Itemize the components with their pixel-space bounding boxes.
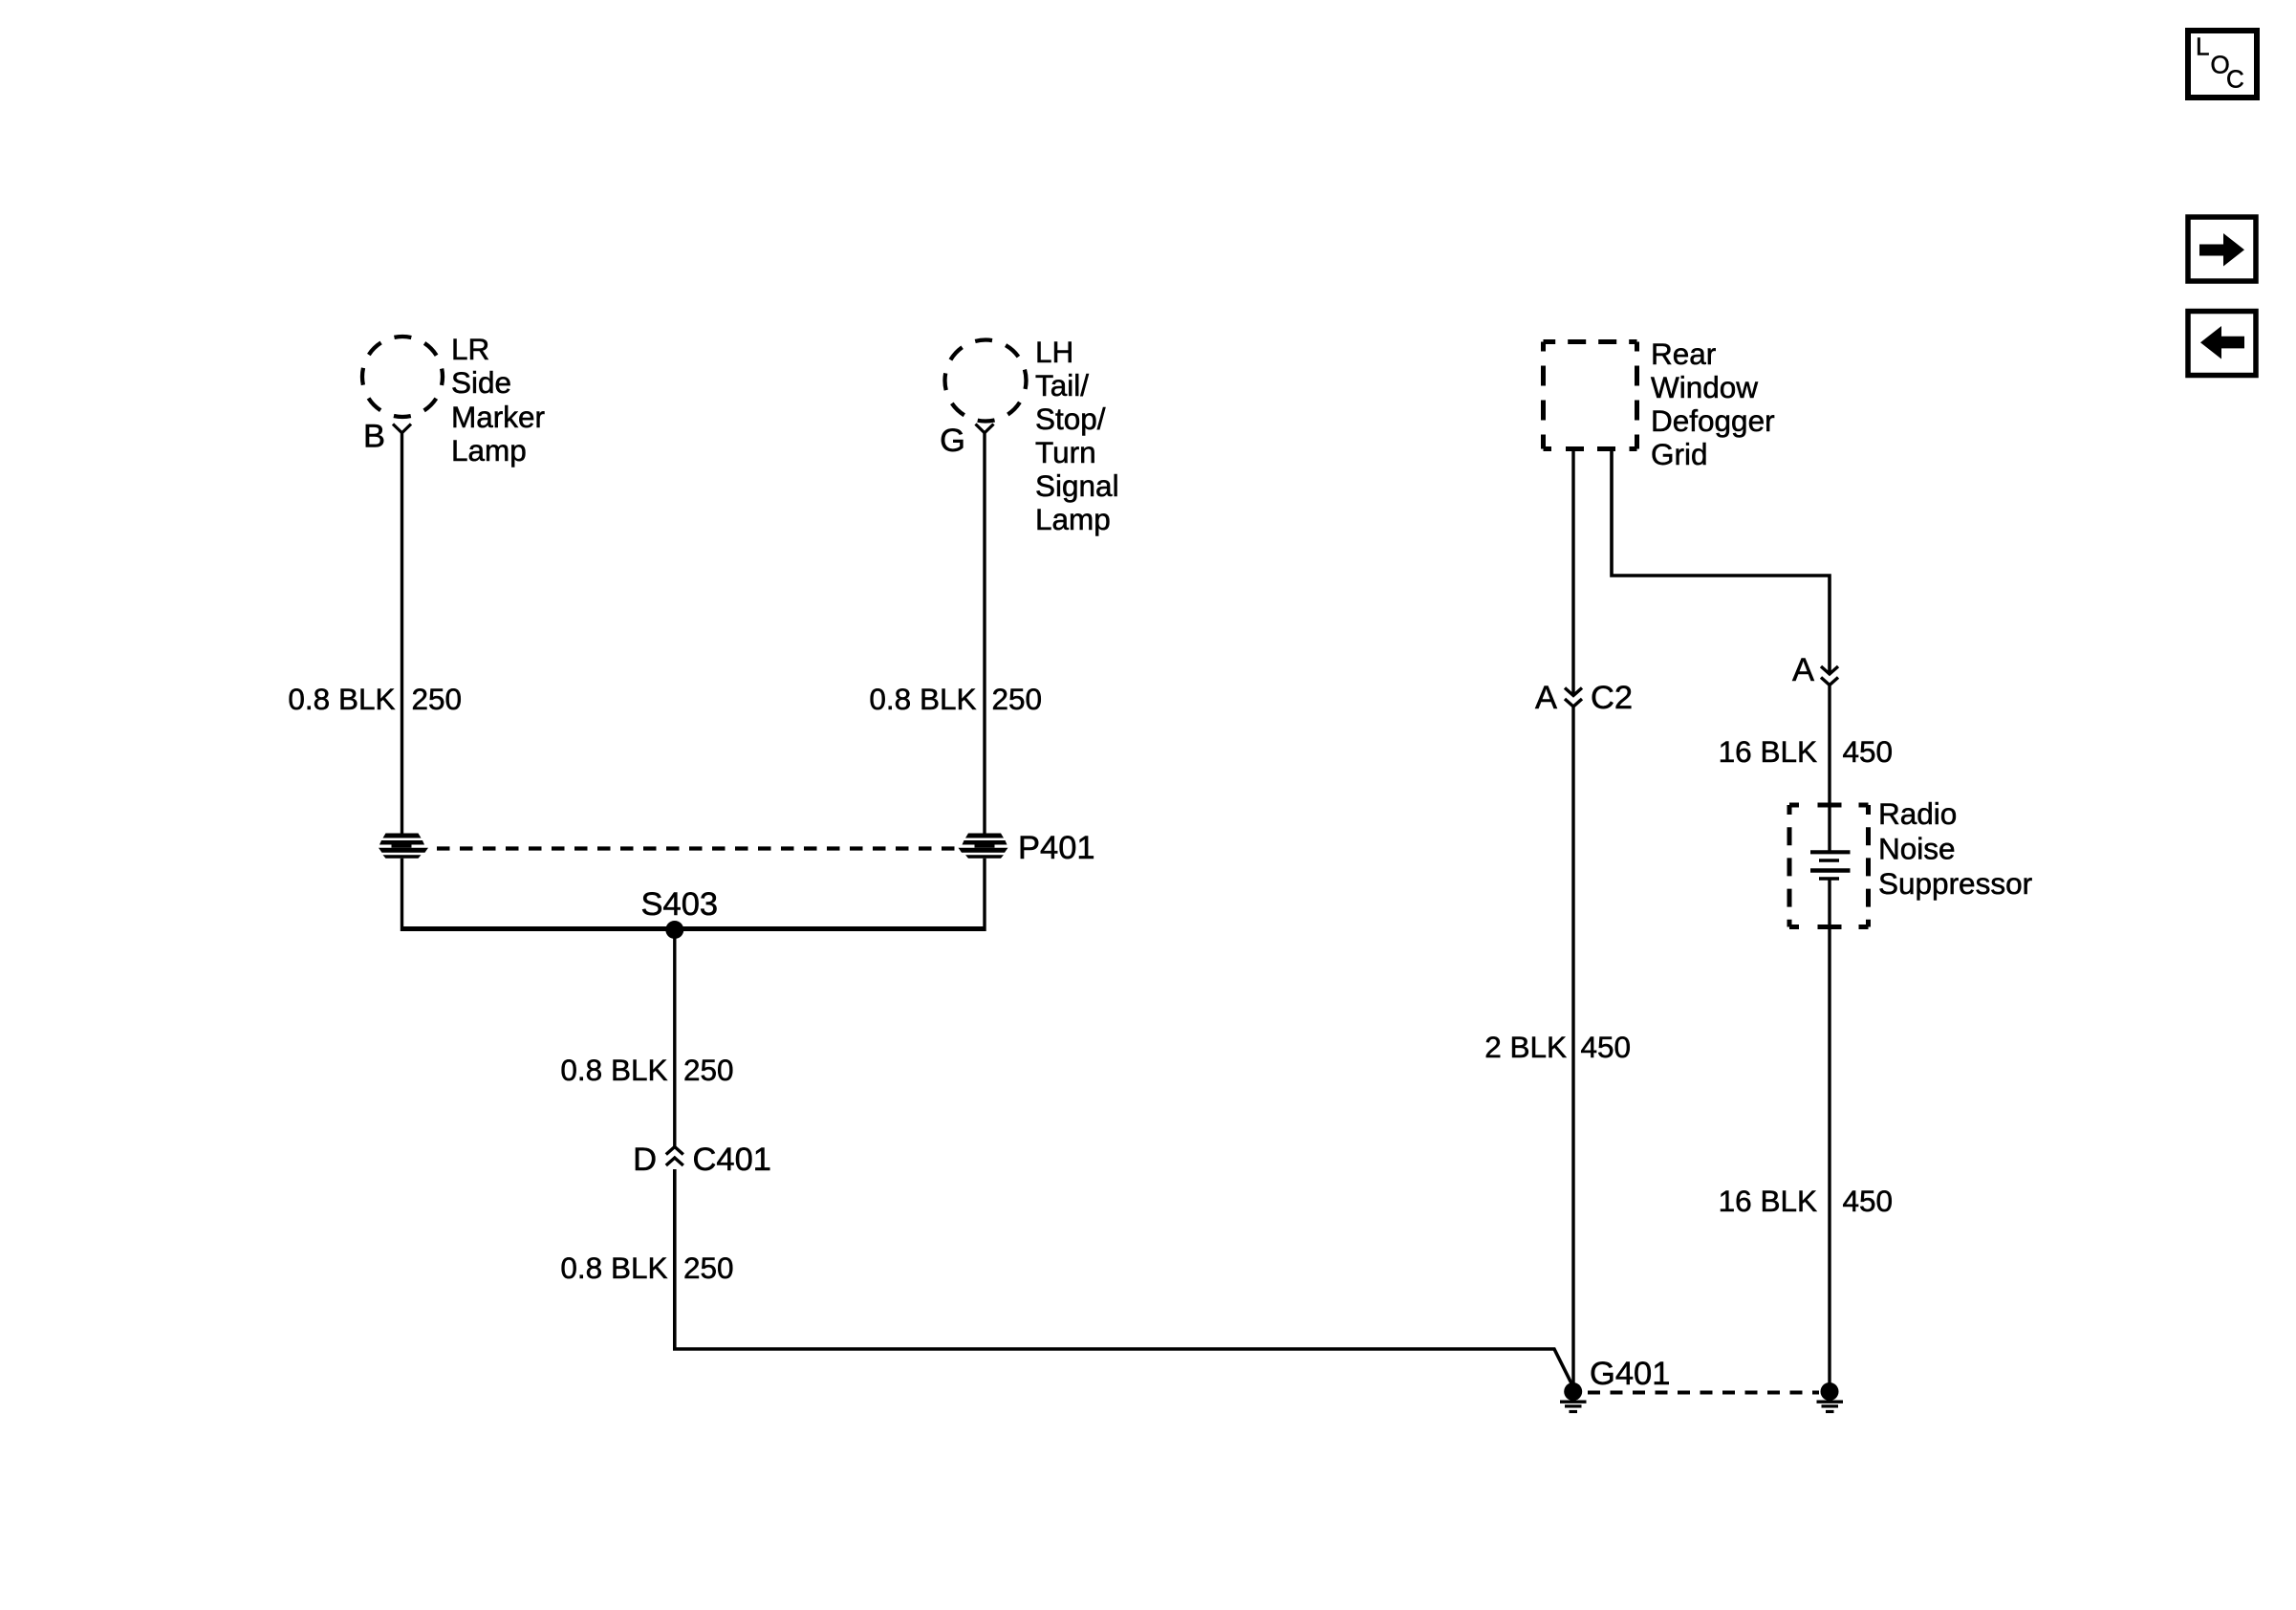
label: LR Side Marker Lamp (451, 332, 545, 468)
svg-text:250: 250 (992, 682, 1043, 716)
svg-text:S403: S403 (641, 886, 719, 923)
inline connector pin A (down chevrons, right branch) (1821, 666, 1838, 685)
wire label 0.8 BLK 250 (left) (288, 682, 462, 716)
svg-text:Signal: Signal (1035, 468, 1119, 503)
label: LH Tail/Stop/Turn Signal Lamp (1035, 335, 1119, 536)
wire: pin A down to radio noise suppressor (1828, 685, 1830, 851)
svg-text:P401: P401 (1018, 830, 1095, 866)
svg-text:450: 450 (1843, 734, 1894, 769)
svg-text:LH: LH (1035, 335, 1073, 369)
svg-text:D: D (633, 1142, 657, 1178)
svg-text:B: B (363, 419, 385, 455)
loc legend box (2188, 31, 2257, 98)
capacitor/battery element of radio noise suppressor (1810, 852, 1851, 879)
wire: splice S403 down to connector C401 (673, 930, 676, 1147)
wire label 16 BLK 450 (upper) (1719, 734, 1893, 769)
ground (right ground symbol) (1817, 1382, 1844, 1412)
svg-text:Rear: Rear (1651, 337, 1716, 371)
svg-text:C2: C2 (1591, 680, 1633, 716)
svg-text:Radio: Radio (1878, 796, 1957, 831)
connector C2 pin A (down chevrons) (1565, 688, 1582, 707)
svg-text:250: 250 (683, 1251, 734, 1285)
svg-text:450: 450 (1843, 1184, 1894, 1218)
ground G401 (left ground symbol) (1560, 1382, 1587, 1412)
svg-text:LR: LR (451, 332, 489, 366)
dashed tie line between grounds (1588, 1391, 1819, 1395)
wire: lamp E1 pin B down to grommet (401, 433, 403, 834)
lamp E1: LR Side Marker Lamp (dashed circle) (362, 337, 443, 417)
svg-text:250: 250 (412, 682, 463, 716)
svg-text:L: L (2196, 33, 2209, 61)
label: Rear Window Defogger Grid (1651, 337, 1775, 471)
svg-text:Tail/: Tail/ (1035, 368, 1089, 402)
wire: defogger grid left lead down to connector C2 (1571, 449, 1574, 696)
connector C401 pin D (up chevrons) (666, 1147, 683, 1166)
svg-text:0.8 BLK: 0.8 BLK (560, 1251, 667, 1285)
svg-text:Window: Window (1651, 370, 1758, 404)
svg-text:0.8 BLK: 0.8 BLK (869, 682, 976, 716)
wire: right grommet to splice bus (983, 859, 986, 931)
svg-text:C401: C401 (693, 1142, 771, 1178)
svg-text:250: 250 (683, 1053, 734, 1087)
grommet P401 (left pass-through) (379, 834, 428, 859)
wire: defogger grid right lead down, right, down to pin A (1612, 449, 1830, 674)
splice S403 junction dot (665, 921, 683, 939)
wire: lamp E2 pin G down to grommet (983, 433, 986, 834)
svg-text:A: A (1535, 680, 1557, 716)
wire: radio noise suppressor down to ground (1828, 879, 1830, 1384)
svg-text:16 BLK: 16 BLK (1719, 734, 1817, 769)
dashed tie line between grommets P401 (437, 846, 955, 850)
svg-text:Lamp: Lamp (451, 433, 527, 468)
svg-text:Stop/: Stop/ (1035, 402, 1106, 436)
svg-text:Turn: Turn (1035, 435, 1096, 469)
svg-text:G: G (940, 423, 965, 459)
wire label 16 BLK 450 (lower) (1719, 1184, 1893, 1218)
svg-text:Side: Side (451, 365, 511, 400)
label: Radio Noise Suppressor (1878, 796, 2032, 901)
svg-text:Lamp: Lamp (1035, 502, 1111, 536)
svg-text:16 BLK: 16 BLK (1719, 1184, 1817, 1218)
wire label 2 BLK 450 (1484, 1030, 1631, 1064)
wire label 0.8 BLK 250 (middle) (560, 1053, 733, 1087)
wire label 0.8 BLK 250 (lower) (560, 1251, 733, 1285)
wire: left grommet to splice bus (401, 859, 403, 931)
svg-text:Grid: Grid (1651, 437, 1708, 471)
svg-text:C: C (2226, 65, 2244, 94)
rear window defogger grid (dashed box) (1544, 342, 1637, 449)
wire: connector C2 down to ground G401 (1571, 707, 1574, 1384)
svg-text:2 BLK: 2 BLK (1484, 1030, 1567, 1064)
pin B of lamp E1 (female connector fork) (363, 419, 411, 455)
svg-text:G401: G401 (1590, 1356, 1670, 1392)
svg-text:Suppressor: Suppressor (1878, 866, 2032, 901)
svg-text:A: A (1792, 652, 1814, 688)
svg-text:0.8 BLK: 0.8 BLK (288, 682, 395, 716)
svg-text:Defogger: Defogger (1651, 403, 1775, 438)
svg-text:450: 450 (1581, 1030, 1632, 1064)
wire: connector C401 down, right, diagonal to ground G401 (675, 1169, 1573, 1386)
svg-text:0.8 BLK: 0.8 BLK (560, 1053, 667, 1087)
grommet P401 (right pass-through) (959, 834, 1008, 859)
wire: splice bus S403 horizontal (401, 926, 986, 931)
pin G of lamp E2 (female connector fork) (940, 423, 993, 459)
radio noise suppressor (dashed box) (1789, 805, 1869, 927)
lamp E2: LH Tail/Stop/Turn Signal Lamp (dashed circle) (945, 340, 1027, 422)
back arrow legend box (2188, 312, 2256, 376)
svg-text:Marker: Marker (451, 400, 545, 434)
svg-text:Noise: Noise (1878, 832, 1956, 866)
forward arrow legend box (2188, 217, 2256, 281)
wire label 0.8 BLK 250 (right) (869, 682, 1042, 716)
